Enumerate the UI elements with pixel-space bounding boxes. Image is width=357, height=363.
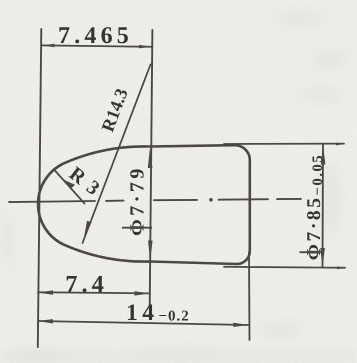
blob arrow at end of phi7.85 bottom ext xyxy=(337,266,346,269)
centerline xyxy=(9,199,301,202)
arrow phi7.79 up xyxy=(148,148,153,169)
arrow phi7.79 down xyxy=(148,241,153,262)
faint bottom edge shading (decorative) xyxy=(0,352,357,363)
bullet outline xyxy=(38,145,250,264)
left extension line xyxy=(38,29,42,347)
dim line 7.465 xyxy=(42,45,152,46)
arrow R3 xyxy=(61,179,75,188)
arrowheads xyxy=(38,44,347,327)
phi bar of 7.79 xyxy=(122,227,152,229)
arrow 14 right xyxy=(233,323,248,327)
R3 leader xyxy=(54,170,85,204)
arrow 7.465 left xyxy=(42,44,55,48)
arrow 14 left xyxy=(38,319,54,323)
phi bar of 7.85 xyxy=(300,251,322,253)
arrow 7.4 left xyxy=(38,290,54,294)
vertical line x=150 (7.465 ext / phi7.79 dim / 7.4 ext) xyxy=(150,30,153,307)
dim line phi7.85 xyxy=(322,145,325,268)
phi7.85 bottom extension line xyxy=(224,267,345,268)
R14.3 leader xyxy=(83,65,151,244)
arrow phi7.85 down xyxy=(320,248,325,268)
arrow R14.3 xyxy=(84,221,92,240)
arrow 7.4 right xyxy=(135,291,151,295)
right extension line of 14 xyxy=(248,252,251,340)
centerline dot xyxy=(209,198,213,202)
arrow phi7.85 up xyxy=(321,145,326,165)
dim line 14-0.2 xyxy=(38,321,248,325)
arrow 7.465 right xyxy=(139,45,152,49)
phi7.85 top extension line xyxy=(224,143,344,145)
dim line 7.4 xyxy=(38,292,150,293)
blob arrow at end of phi7.85 top ext xyxy=(336,143,345,146)
